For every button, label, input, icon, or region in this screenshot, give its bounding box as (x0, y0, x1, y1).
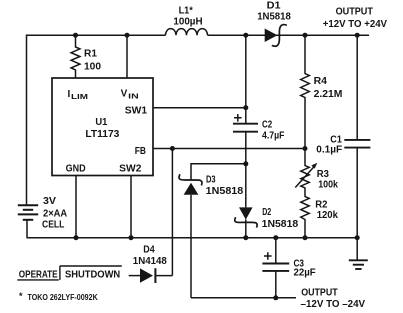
svg-text:2.21M: 2.21M (314, 89, 343, 100)
svg-text:U1: U1 (95, 117, 107, 128)
svg-text:2×AA: 2×AA (43, 208, 67, 219)
svg-text:D1: D1 (267, 0, 281, 11)
svg-text:SHUTDOWN: SHUTDOWN (65, 269, 120, 280)
svg-text:R4: R4 (314, 76, 328, 87)
svg-text:R2: R2 (315, 199, 328, 210)
svg-text:+12V TO +24V: +12V TO +24V (323, 19, 388, 30)
svg-text:–12V TO –24V: –12V TO –24V (301, 299, 366, 310)
svg-text:4.7µF: 4.7µF (262, 130, 284, 141)
svg-text:LT1173: LT1173 (85, 129, 119, 140)
svg-text:D2: D2 (262, 207, 271, 218)
svg-text:LIM: LIM (71, 94, 88, 101)
svg-text:V: V (121, 89, 128, 100)
svg-text:100µH: 100µH (173, 17, 202, 28)
svg-text:GND: GND (66, 163, 86, 174)
svg-text:SW2: SW2 (119, 163, 142, 174)
svg-text:OUTPUT: OUTPUT (301, 288, 338, 299)
svg-text:100: 100 (84, 62, 101, 73)
svg-text:1N5818: 1N5818 (206, 186, 244, 197)
svg-text:D4: D4 (143, 245, 155, 256)
svg-text:SW1: SW1 (125, 106, 148, 117)
svg-text:1N4148: 1N4148 (133, 256, 167, 267)
svg-text:1N5818: 1N5818 (257, 12, 291, 23)
svg-text:TOKO 262LYF-0092K: TOKO 262LYF-0092K (28, 292, 99, 302)
svg-text:R3: R3 (317, 169, 330, 180)
svg-text:120k: 120k (317, 210, 339, 221)
svg-text:22µF: 22µF (294, 268, 316, 279)
svg-text:OPERATE: OPERATE (19, 269, 58, 280)
svg-text:1N5818: 1N5818 (262, 219, 299, 230)
svg-text:D3: D3 (206, 175, 216, 186)
svg-text:*: * (19, 291, 23, 301)
svg-text:3V: 3V (43, 196, 56, 207)
svg-text:100k: 100k (318, 180, 338, 191)
svg-text:C2: C2 (262, 120, 273, 131)
svg-text:CELL: CELL (42, 219, 64, 230)
svg-text:0.1µF: 0.1µF (316, 145, 342, 156)
svg-text:FB: FB (135, 146, 146, 157)
svg-text:R1: R1 (84, 49, 97, 60)
svg-text:OUTPUT: OUTPUT (336, 6, 373, 17)
svg-text:L1*: L1* (179, 6, 193, 17)
svg-text:IN: IN (128, 94, 139, 101)
